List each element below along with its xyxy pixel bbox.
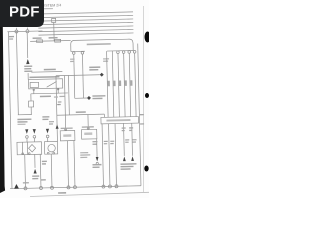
wire x18 — [16, 32, 18, 115]
wire gauge text rows left — [80, 152, 88, 153]
junction pin 4 to arrow — [123, 123, 126, 155]
label W-L — [9, 36, 14, 38]
terminal circle under box b — [81, 51, 84, 54]
right frame border — [138, 44, 141, 186]
right wire bundle 2 — [112, 51, 114, 117]
relay1 contact — [47, 81, 57, 87]
box B pin down arrow wire — [96, 139, 98, 157]
bus line 1 — [38, 15, 133, 17]
top frame line — [38, 12, 133, 14]
right wire bundle 5 — [129, 53, 130, 116]
diamond symbol inside — [28, 144, 35, 152]
wire from big box terminal a down — [73, 54, 76, 98]
bus circle 3 — [67, 186, 70, 189]
mid horizontal line — [57, 114, 104, 115]
text under arrow — [32, 175, 39, 177]
relay box A — [60, 131, 75, 141]
right wire bundle 4 — [124, 53, 125, 116]
junction pin 3 — [115, 124, 116, 187]
bus circle 4 — [73, 186, 76, 189]
horizontal line to diamond — [56, 74, 100, 77]
PDF badge — [0, 0, 44, 27]
up-arrow bottom left — [33, 169, 36, 174]
up-arrow ecu 1 — [123, 156, 126, 161]
terminal circles right row — [117, 51, 120, 54]
box bottom edge left part — [71, 50, 85, 52]
box A pin down 2 — [74, 141, 75, 188]
down-arrow sw3 — [46, 129, 49, 134]
text under arrow — [24, 65, 32, 67]
caption above relay B — [82, 126, 94, 128]
relay1 pin circles — [33, 89, 35, 91]
right edge punch blob 1 — [145, 32, 151, 43]
bus line 6 — [39, 33, 134, 35]
circle above box B — [87, 127, 89, 129]
wide box internal dividers — [21, 142, 23, 154]
motor circle inside — [48, 144, 56, 152]
title text — [43, 3, 61, 9]
wire x56.5 down — [56, 76, 57, 125]
label above diamond — [89, 66, 100, 68]
tick on wire — [57, 104, 60, 106]
connector circle T2 — [26, 30, 29, 33]
right wire bundle 6 — [135, 53, 136, 116]
fuse symbol B — [55, 39, 61, 42]
wire labels bundle — [108, 81, 110, 87]
left black scan bar — [0, 26, 5, 193]
drop to box B — [87, 115, 89, 130]
fuse F1 on bus line 2 — [52, 18, 56, 22]
small component box — [29, 101, 34, 107]
wide box pin 1 down — [24, 155, 27, 189]
wire to ctrl sw line — [30, 107, 32, 114]
wire x65 down — [64, 76, 65, 131]
jog to diamond 2 — [75, 97, 87, 99]
fuse row line — [30, 39, 70, 42]
box A pin down 1 — [67, 141, 68, 188]
wire x28.7 upper — [26, 33, 29, 58]
page background — [0, 0, 149, 198]
box bottom edge right part — [107, 49, 133, 52]
up-arrow ecu 2 — [131, 156, 134, 161]
fuse symbol A — [37, 40, 43, 43]
relay1 pin down a — [33, 89, 35, 94]
bus circle 7 — [115, 185, 118, 188]
junction pin 2 — [109, 124, 110, 187]
down-arrow sw2 — [33, 129, 36, 134]
wide box pin 2 down to arrow — [34, 154, 36, 167]
left feed line with connectors — [7, 30, 42, 33]
diamond A/C comp — [100, 73, 104, 77]
wire resume to relay1 — [27, 73, 29, 79]
bus line 5 — [38, 29, 133, 31]
circle under sw1 — [26, 136, 29, 139]
connector circle T1 — [15, 30, 18, 33]
diamond A/C comp 2 — [87, 96, 91, 100]
label W-B top of wire — [92, 141, 97, 142]
label right of diamond 2 — [92, 95, 105, 97]
stub above T2 — [26, 28, 28, 30]
svg-text:PDF: PDF — [9, 4, 40, 21]
ctrl sw label — [17, 118, 31, 120]
tick label right of box top — [140, 114, 144, 115]
right wire bundle 3 — [118, 54, 119, 117]
right edge punch blob 2 — [145, 93, 149, 98]
label 1.25L — [76, 111, 86, 113]
label vertical 1.25B — [42, 161, 47, 163]
up-arrow connector left — [26, 59, 30, 64]
box bottom pin circles — [22, 153, 24, 155]
wire continues into wide box — [56, 129, 58, 141]
ctrl sw top line — [18, 113, 32, 115]
A/C mag clutch relay big box (rounded) — [71, 39, 134, 53]
bus circle 1 — [24, 187, 27, 190]
bus line 4 — [38, 26, 133, 28]
wire from fuse down — [53, 22, 55, 40]
text cooling fan ecu — [120, 163, 136, 165]
up-arrow mid wire — [56, 124, 59, 128]
wire x31 down — [30, 94, 32, 101]
right edge punch blob 3 — [144, 166, 148, 172]
svg-text:YSTEM 2/4: YSTEM 2/4 — [43, 3, 61, 7]
junction pin 5 to arrow — [131, 123, 134, 155]
down-arrow sw1 — [25, 129, 28, 134]
page right edge shadow line — [143, 6, 145, 192]
junction connector long box — [101, 117, 139, 124]
relay1 pin down b — [57, 88, 59, 93]
stub above T1 — [15, 28, 17, 30]
pressure switch / motor wide box — [17, 142, 42, 155]
feed line into relay1 — [31, 70, 62, 73]
wire from big box terminal b down — [81, 54, 84, 98]
text left of arrow — [49, 121, 54, 122]
wire x69 down — [67, 75, 70, 114]
wide box pin 3 down — [39, 154, 42, 188]
bus circle 6 — [108, 185, 111, 188]
junction pin 1 — [102, 124, 103, 187]
relay1 coil — [30, 82, 39, 87]
bus circle 5 — [102, 185, 105, 188]
label above bus — [23, 182, 29, 183]
tick text labels on wire — [58, 101, 62, 102]
circle above box A — [65, 128, 67, 130]
down-arrow under box B — [96, 157, 99, 162]
wire left long — [8, 32, 12, 189]
relay1 bottom line — [31, 92, 68, 95]
circle under arrow — [96, 162, 98, 164]
corner down to junction — [103, 114, 105, 117]
wide box pin 4 down — [50, 154, 53, 188]
relay1 caption — [29, 76, 59, 78]
bus circle 2 — [39, 186, 42, 189]
ground bus — [10, 186, 141, 189]
caption above relay A — [61, 127, 73, 129]
bus line 3 — [38, 22, 133, 24]
page bottom edge shadow — [30, 192, 149, 196]
tiny wire labels — [54, 96, 58, 97]
ground triangle — [14, 184, 19, 189]
wire gauge labels right bottom — [104, 141, 108, 142]
box label — [87, 43, 111, 45]
radiator fan relay no.1 box — [29, 79, 63, 89]
right wire bundle 1 — [107, 51, 109, 117]
circle under sw2 — [33, 135, 36, 138]
fuse row labels — [33, 37, 42, 39]
bus line 2 — [38, 19, 133, 21]
labels on pins 4 5 — [122, 127, 126, 128]
circle under sw3 — [46, 135, 49, 138]
wire label 1.25 W-R — [44, 69, 56, 71]
text under that arrow — [92, 164, 101, 166]
relay box B — [81, 129, 96, 139]
terminal circle under box a — [72, 52, 75, 55]
stubs into wide box — [26, 138, 28, 142]
label 1.25B — [40, 96, 51, 98]
label below bus — [58, 192, 66, 194]
